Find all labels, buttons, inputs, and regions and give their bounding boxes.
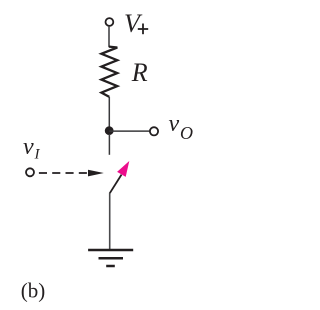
svg-text:V: V <box>124 9 143 38</box>
dashed-line arrowhead <box>88 170 104 177</box>
label vO <box>169 111 194 143</box>
svg-text:v: v <box>169 111 180 137</box>
node (junction dot) <box>105 126 114 135</box>
switch blade <box>110 175 122 194</box>
wire from node to vO terminal <box>109 130 150 132</box>
terminal vI (open circle) <box>26 168 34 176</box>
dashed control line from vI <box>39 172 88 174</box>
wire from switch to ground <box>109 193 111 250</box>
ground <box>88 250 133 266</box>
resistor R <box>101 47 117 97</box>
wire from resistor bottom to output node <box>108 97 110 131</box>
svg-text:O: O <box>180 123 193 143</box>
switch actuation arrow (magenta) <box>117 161 129 177</box>
svg-text:I: I <box>34 147 41 163</box>
wire from V+ terminal to resistor top <box>108 27 110 48</box>
terminal vO (open circle) <box>150 127 158 135</box>
svg-text:v: v <box>23 134 34 160</box>
svg-text:(b): (b) <box>21 278 46 302</box>
label vI <box>23 134 41 162</box>
terminal V+ (open circle) <box>106 18 114 26</box>
svg-text:R: R <box>131 58 148 87</box>
label V+ <box>124 9 148 38</box>
wire from node down to switch top contact <box>108 134 110 155</box>
